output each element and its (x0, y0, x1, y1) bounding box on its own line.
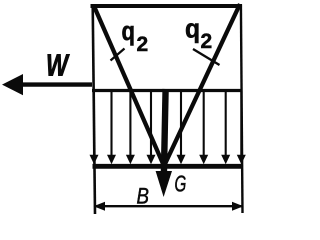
V right diagonal (triangular load boundary) (165, 4, 240, 164)
svg-text:W: W (46, 47, 70, 82)
leader tick left q2 (111, 49, 125, 61)
svg-text:2: 2 (137, 33, 149, 56)
load arrow 4 (147, 91, 156, 164)
load band bottom line (93, 164, 243, 169)
load arrow 5 (center, behind G arrow) (161, 91, 170, 164)
dimension line B with end arrowheads (94, 202, 244, 211)
container right edge (241, 4, 243, 213)
load arrow 9 (237, 91, 246, 164)
svg-text:B: B (137, 185, 149, 209)
svg-text:q: q (122, 17, 135, 46)
load band top line (92, 89, 242, 92)
load arrow 7 (199, 91, 208, 164)
container top edge (91, 4, 242, 8)
load arrow 8 (221, 91, 230, 164)
load arrow 2 (107, 91, 116, 164)
W force arrow (horizontal, pointing left) (2, 74, 92, 95)
svg-text:2: 2 (201, 30, 213, 53)
container left edge (93, 4, 95, 214)
leader tick right q2 (193, 49, 220, 65)
load arrow 3 (126, 91, 135, 164)
svg-text:G: G (175, 171, 187, 197)
load arrow 6 (177, 91, 186, 164)
load arrow 1 (90, 91, 99, 164)
svg-text:q: q (185, 15, 200, 44)
V left diagonal (triangular load boundary) (94, 5, 165, 166)
G force arrow (thick, vertical, down) (156, 89, 172, 197)
